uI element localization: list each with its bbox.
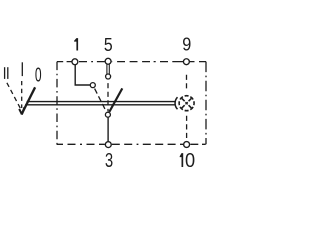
- dashed wire terminal 9 to lamp: [186, 75, 188, 89]
- switch housing left border: [56, 62, 58, 145]
- switch housing right border: [205, 62, 207, 145]
- terminal 1: [72, 59, 78, 65]
- lamp X cross: [177, 94, 196, 113]
- position II dashed lever line: [7, 83, 20, 108]
- dashed alternate contact path C to moving contact: [107, 83, 109, 111]
- position I dashed lever line: [21, 81, 23, 108]
- contact circle A (from terminal 1): [90, 83, 95, 88]
- actuator coupling bar (double line): [27, 101, 175, 103]
- label 3: [106, 153, 113, 167]
- terminal 3: [105, 142, 111, 148]
- label 1: [74, 38, 78, 50]
- moving contact lever of pole 3: [109, 88, 122, 112]
- lamp actuator arc: [175, 97, 177, 109]
- terminal 10: [184, 142, 190, 148]
- label 5: [105, 38, 113, 51]
- label I: [21, 62, 23, 76]
- terminal 1 branch wire: [75, 65, 90, 86]
- contact circle C (from terminal 5): [106, 74, 111, 79]
- terminal 5 double-line link: [106, 64, 108, 74]
- label II: [4, 67, 6, 79]
- wire B to terminal 3: [107, 118, 109, 142]
- dashed wire lamp to terminal 10: [186, 116, 188, 138]
- illumination lamp dashed circle: [179, 96, 194, 111]
- actuator lever (position 0): [22, 87, 35, 113]
- terminal 5: [105, 58, 111, 64]
- switch housing top border: [57, 61, 206, 63]
- label 9: [183, 38, 191, 51]
- moving contact pivot circle B: [105, 112, 110, 117]
- label 0: [35, 68, 41, 82]
- pivot arrowhead: [19, 109, 22, 115]
- label 10: [180, 153, 184, 167]
- terminal 9: [183, 59, 189, 65]
- dashed alternate contact path from A to moving contact: [95, 89, 107, 112]
- switch housing bottom border: [57, 143, 206, 145]
